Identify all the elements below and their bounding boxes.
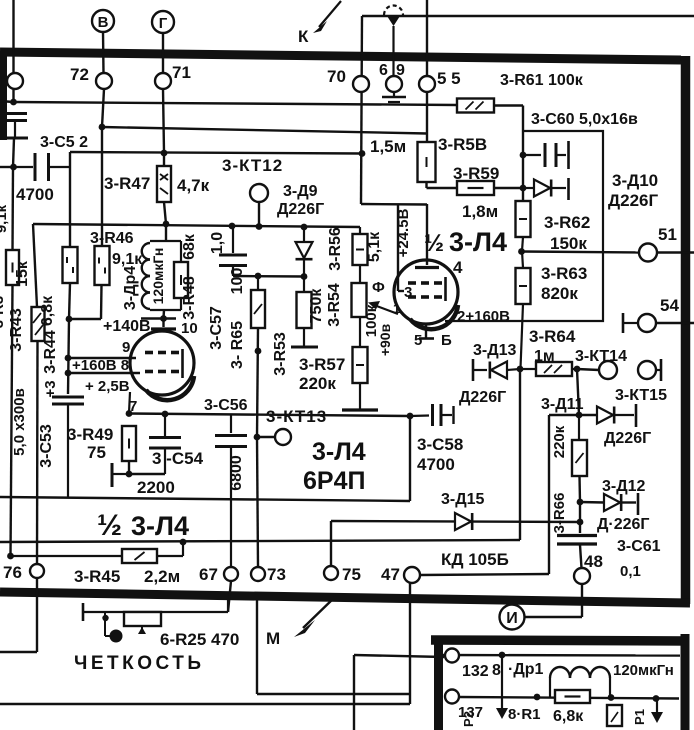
label 150K	[550, 234, 587, 253]
node junction x257/y437	[254, 434, 261, 441]
wire 47 right	[420, 574, 549, 575]
label 820K	[541, 284, 578, 303]
label pin 5	[414, 332, 422, 349]
label 3-C53	[38, 424, 55, 468]
label KD105B	[441, 550, 509, 569]
label 6R4P big	[303, 467, 365, 495]
resistor R48 68k	[174, 241, 188, 310]
label 9,1K edge	[0, 204, 10, 233]
wire R61 right lead	[494, 104, 523, 106]
wire grid pin 8	[68, 372, 140, 374]
label 0,1	[620, 563, 641, 580]
label 8-R1	[508, 706, 541, 723]
label 67	[199, 565, 218, 584]
label 132	[462, 663, 489, 680]
svg-text:Д226Г: Д226Г	[608, 191, 658, 210]
resistor R45 2.2M	[11, 542, 184, 563]
node junction x166/y224	[163, 221, 170, 228]
svg-text:120мкГн: 120мкГн	[150, 248, 166, 305]
svg-text:½: ½	[97, 509, 122, 542]
capacitor C52 3-C52	[3, 114, 28, 139]
wire x549 up to D11	[548, 415, 550, 574]
svg-text:3-С53: 3-С53	[38, 424, 55, 468]
svg-text:3-R3: 3-R3	[0, 296, 7, 329]
svg-text:+160В 8: +160В 8	[72, 357, 129, 374]
label 47	[381, 565, 400, 584]
svg-text:220к: 220к	[551, 425, 568, 458]
terminal 76	[30, 564, 44, 578]
wire grid pin 9	[68, 357, 136, 359]
capacitor C54 2200	[149, 414, 181, 474]
label 3-KT13	[266, 407, 327, 426]
wire left edge stub y101	[0, 101, 14, 102]
wire pin3 stub	[398, 290, 404, 292]
wire R47 top lead	[163, 153, 165, 166]
svg-text:75: 75	[342, 565, 361, 584]
label 2,2M	[144, 567, 180, 586]
terminal 132	[445, 649, 459, 663]
wire loop box around R62/R63	[445, 131, 603, 321]
label P2	[461, 711, 476, 727]
label pin 10	[181, 320, 198, 337]
svg-text:3-R49: 3-R49	[67, 425, 113, 444]
node junction x13/y102	[10, 99, 17, 106]
svg-text:6800: 6800	[228, 455, 245, 491]
node junction x523/y155	[520, 152, 527, 159]
svg-text:3-КТ15: 3-КТ15	[615, 387, 667, 404]
terminal 54	[638, 314, 656, 332]
label 48	[584, 552, 603, 571]
svg-text:+140В: +140В	[103, 318, 151, 335]
wire x13 down from C52	[13, 138, 14, 167]
terminal 55	[419, 76, 435, 92]
node junction x129/y474	[126, 471, 133, 478]
node +140V junction	[160, 315, 167, 322]
wire y655 to box	[354, 655, 444, 657]
capacitor C58 4700	[410, 404, 454, 426]
label 3-D15	[441, 491, 485, 508]
svg-text:6-R25 470: 6-R25 470	[160, 630, 239, 649]
inductor Dr4 120uH	[142, 243, 150, 309]
svg-text:3- R65: 3- R65	[229, 321, 246, 369]
label 75	[342, 565, 361, 584]
node junction x362/y153	[359, 150, 366, 157]
wire 76 below border	[36, 578, 38, 652]
node junction x10/y556	[7, 553, 14, 560]
wire y541 bus	[0, 540, 520, 542]
tube U2 grid dashes	[408, 277, 446, 301]
svg-text:51: 51	[658, 225, 677, 244]
wire to terminal 51	[522, 252, 640, 253]
tube U2 top cap pin 4	[415, 204, 439, 268]
node junction x410/y416	[407, 413, 414, 420]
wire x580 to y522	[579, 502, 581, 522]
resistor R56 5.1k	[353, 227, 368, 265]
svg-text:КД 105Б: КД 105Б	[441, 550, 509, 569]
svg-text:3-R5В: 3-R5В	[438, 135, 487, 154]
wire y225 bus	[33, 224, 360, 227]
wire y704 bottom bus	[0, 703, 410, 705]
svg-text:½: ½	[424, 230, 444, 257]
capacitor C52a 4700 coupling	[14, 153, 70, 181]
node junction x68/y373	[65, 370, 72, 377]
label 71	[172, 63, 191, 82]
svg-text:1,8м: 1,8м	[462, 202, 498, 221]
terminal 54 pin bar	[623, 313, 638, 333]
svg-text:3-R43: 3-R43	[8, 308, 25, 352]
node junction x577/y369	[574, 366, 581, 373]
svg-text:3-КТ12: 3-КТ12	[222, 156, 283, 175]
label 3-R54	[326, 283, 343, 327]
label +160V 8	[72, 357, 129, 374]
arrow to K	[313, 1, 341, 33]
svg-text:Ф: Ф	[372, 279, 385, 296]
wire x70 below resistor	[69, 283, 70, 319]
node junction pin7	[126, 410, 133, 417]
ground under 69	[382, 92, 406, 102]
label half symbol left	[97, 509, 122, 542]
resistor R63 820k	[516, 251, 531, 368]
resistor R43 15k on x13	[6, 250, 19, 285]
wire 55 from top	[426, 0, 428, 76]
capacitor C57 1.0	[219, 227, 247, 276]
svg-text:9: 9	[122, 339, 130, 356]
terminal 47	[404, 567, 420, 583]
label 1,8M	[462, 202, 498, 221]
label 3-C56	[204, 397, 248, 414]
svg-text:2,2м: 2,2м	[144, 567, 180, 586]
label pin 1	[393, 301, 400, 316]
diode D15 KD105B	[455, 513, 472, 530]
node junction x580/y522	[577, 519, 584, 526]
label 75	[87, 443, 106, 462]
label 3-R47	[104, 174, 150, 193]
resistor R46a	[63, 247, 78, 283]
capacitor C53 electrolytic	[52, 397, 84, 498]
label 3-R64	[529, 327, 576, 346]
svg-text:70: 70	[327, 67, 346, 86]
wire x37 down to terminal 76	[36, 341, 39, 565]
label 69 digit 9	[396, 62, 405, 79]
resistor R49 75	[122, 426, 136, 461]
node junction x183/y542	[180, 539, 187, 546]
wire y655 bottom-box bus	[443, 654, 680, 657]
terminal left edge	[7, 73, 23, 89]
label 6,8K	[39, 295, 56, 326]
capacitor C60 5.0x16V	[523, 141, 569, 169]
svg-text:6Р4П: 6Р4П	[303, 467, 365, 495]
wire y319 to R46 bottom	[69, 318, 101, 320]
svg-text:4: 4	[453, 258, 463, 277]
label 3-L4 right	[449, 227, 507, 257]
label 2+160V	[457, 308, 510, 325]
label 750K	[308, 288, 325, 324]
wire x520 down	[519, 369, 521, 540]
svg-text:М: М	[266, 629, 280, 648]
arrow down P2	[496, 655, 508, 719]
potentiometer R54 wiper arrow	[368, 301, 398, 314]
wire choke top bar	[150, 240, 181, 242]
svg-text:3-Д15: 3-Д15	[441, 491, 485, 508]
resistor R59 1.8M	[457, 181, 494, 195]
label 1,5M	[370, 137, 406, 156]
label 3-R44	[42, 330, 59, 374]
node junction x520/y369	[517, 366, 524, 373]
svg-text:+3: +3	[42, 380, 59, 397]
svg-text:1,0: 1,0	[209, 232, 226, 254]
resistor R64 1M	[520, 362, 577, 376]
wire R44 top lead	[33, 224, 37, 307]
resistor R53 750k	[291, 277, 318, 348]
svg-text:5 5: 5 5	[437, 69, 461, 88]
svg-text:132: 132	[462, 663, 489, 680]
label 3-D11	[541, 396, 584, 413]
tube U1 grid dashes	[145, 349, 183, 378]
wire x523 down	[522, 106, 524, 202]
label 4700	[16, 185, 54, 204]
wire left vertical x13 top	[12, 0, 14, 102]
svg-text:3-R56: 3-R56	[327, 227, 344, 271]
diode D9 D226G	[296, 227, 313, 277]
svg-text:67: 67	[199, 565, 218, 584]
svg-text:6,8к: 6,8к	[39, 295, 56, 326]
wire choke bottom bar	[150, 309, 181, 311]
svg-text:В: В	[98, 14, 109, 31]
label 72	[70, 65, 89, 84]
terminal 48	[574, 568, 590, 584]
ground chassis R49	[112, 463, 129, 487]
tube U1 cathode pin 7 lead	[129, 392, 130, 413]
label CHETKOST	[74, 653, 205, 674]
node junction x13/y167	[10, 164, 17, 171]
node junction x259/y226	[256, 223, 263, 230]
svg-text:15к: 15к	[14, 260, 31, 287]
label F	[372, 279, 385, 296]
svg-text:3-С5 2: 3-С5 2	[40, 134, 88, 151]
capacitor C56 6800	[215, 415, 247, 567]
label 3-R43	[8, 308, 25, 352]
svg-text:3-R64: 3-R64	[529, 327, 576, 346]
node junction x502/y655	[499, 652, 506, 659]
frame: bottom box right border	[681, 634, 690, 730]
resistor R46 9.1k	[95, 246, 110, 285]
resistor R58 1.5M	[418, 142, 436, 188]
svg-text:3-Д9: 3-Д9	[283, 183, 318, 200]
label pin 7	[129, 398, 137, 415]
capacitor C61 0.1	[557, 522, 597, 568]
wire 51 to edge	[657, 251, 694, 253]
wire y497 bus	[0, 497, 410, 501]
label B cathode	[441, 332, 452, 349]
frame: thick top border of main box	[0, 52, 681, 60]
label 3-R57	[299, 355, 345, 374]
svg-text:3-R59: 3-R59	[453, 164, 499, 183]
wire 48 down	[581, 584, 583, 617]
label 54	[660, 296, 679, 315]
svg-text:2200: 2200	[137, 478, 175, 497]
wire x68 from y319 down	[68, 319, 69, 394]
label 100K	[363, 304, 380, 337]
label 3-R3 edge	[0, 296, 7, 329]
node junction x68/y358	[65, 355, 72, 362]
resistor R1 6.8k	[555, 690, 590, 703]
svg-text:+ 2,5В: + 2,5В	[85, 378, 130, 395]
svg-text:1м: 1м	[534, 348, 555, 365]
wire 71 down	[163, 89, 164, 152]
label 3-R46	[90, 230, 134, 247]
wire y697 bus	[458, 697, 679, 699]
wire x257 to terminal 73	[257, 437, 258, 567]
wire x331 to 75	[330, 521, 332, 566]
svg-text:3-R61 100к: 3-R61 100к	[500, 72, 584, 89]
wire y522	[331, 521, 580, 522]
label 3-R65	[229, 321, 246, 369]
arrow to M	[294, 596, 336, 637]
wire x13 below R43	[11, 285, 13, 556]
label 3-R63	[541, 264, 587, 283]
label 3-R45	[74, 567, 120, 586]
label K	[298, 27, 309, 46]
node junction x232/y226	[229, 223, 236, 230]
terminal circle B top	[92, 10, 114, 32]
node junction x579/y415	[576, 412, 583, 419]
svg-text:220к: 220к	[299, 374, 336, 393]
diode D12 D226G	[580, 493, 638, 515]
svg-text:8: 8	[492, 662, 501, 679]
resistor R62 150k	[516, 201, 531, 251]
wire x13 down to R43	[11, 167, 14, 250]
svg-text:3 -С54: 3 -С54	[152, 449, 204, 468]
terminal KT15 circle with bar	[638, 359, 661, 381]
wire +B bus y101 to R61	[14, 102, 458, 105]
svg-text:Б: Б	[441, 332, 452, 349]
label 3-R56	[327, 227, 344, 271]
svg-text:3-КТ14: 3-КТ14	[575, 348, 627, 365]
wire left edge stub y167	[0, 166, 14, 168]
terminal KT14 circle	[599, 361, 617, 379]
terminal 71	[155, 73, 171, 89]
wire x102 down to R46	[101, 127, 103, 246]
svg-text:3-R63: 3-R63	[541, 264, 587, 283]
label 3-D13	[473, 342, 517, 359]
terminal KT12 circle	[250, 184, 268, 202]
arrow down P1	[651, 698, 663, 723]
svg-text:Д226Г: Д226Г	[277, 201, 324, 218]
wire R46 bottom lead	[100, 285, 103, 319]
svg-text:Д·226Г: Д·226Г	[597, 516, 650, 533]
label pin 4	[453, 258, 463, 277]
node junction x258/y351	[255, 348, 262, 355]
wire G to border	[162, 33, 164, 73]
tube U1 top cap pin 10	[151, 318, 176, 329]
wire y318 stub	[141, 317, 176, 319]
resistor small below	[607, 705, 622, 726]
label 3-R62	[544, 213, 590, 232]
frame: bottom box left border	[434, 636, 443, 730]
wire y153 from x70 corner to x362	[70, 152, 362, 154]
svg-text:3-Д13: 3-Д13	[473, 342, 517, 359]
label D226G D13	[459, 389, 506, 406]
wire 54 to edge	[656, 322, 694, 324]
wire 73 below border	[256, 599, 258, 694]
svg-text:И: И	[506, 610, 518, 627]
wire y276	[233, 275, 304, 278]
node junction x611/y697	[608, 694, 615, 701]
wire to KT14	[577, 369, 599, 370]
label +3	[42, 380, 59, 397]
label 3-R58	[438, 135, 487, 154]
node junction x165/y414	[162, 411, 169, 418]
label 3-C54	[152, 449, 204, 468]
potentiometer R54 100k	[352, 265, 367, 317]
svg-text:3-Л4: 3-Л4	[449, 227, 507, 257]
wire 67 below	[228, 581, 231, 612]
label D226G D9	[277, 201, 324, 218]
svg-text:75: 75	[87, 443, 106, 462]
label 1,0	[209, 232, 226, 254]
label 68K	[181, 233, 198, 260]
label 73	[267, 565, 286, 584]
wire 48 to I	[525, 616, 582, 618]
svg-text:150к: 150к	[550, 234, 587, 253]
label 3-R49	[67, 425, 113, 444]
svg-text:6,8к: 6,8к	[553, 708, 584, 725]
tube U2 cathode pin 5 lead	[419, 324, 434, 339]
svg-text:3-КТ13: 3-КТ13	[266, 407, 327, 426]
wire node to choke pair	[165, 224, 167, 241]
label D226G D11	[604, 430, 651, 447]
label 3-R66	[551, 493, 568, 534]
wire KT12 down	[258, 202, 260, 227]
svg-text:3-С60 5,0х16в: 3-С60 5,0х16в	[531, 111, 638, 128]
connector antenna symbol	[384, 6, 403, 78]
svg-text:120мкГн: 120мкГн	[613, 662, 674, 679]
node junction x258/y276	[255, 273, 262, 280]
label 137	[458, 704, 483, 721]
svg-text:3-Д12: 3-Д12	[602, 478, 646, 495]
label 76	[3, 563, 22, 582]
node junction x522/y251	[518, 248, 525, 255]
svg-text:3-С56: 3-С56	[204, 397, 248, 414]
svg-text:3-R46: 3-R46	[90, 230, 134, 247]
svg-text:54: 54	[660, 296, 679, 315]
label 3-R48	[181, 276, 198, 320]
svg-text:1,5м: 1,5м	[370, 137, 406, 156]
wire y414 bus C54 C56 C58	[129, 414, 410, 417]
label 3-D9	[283, 183, 318, 200]
svg-text:47: 47	[381, 565, 400, 584]
label 2200	[137, 478, 175, 497]
wire R49 bottom	[128, 461, 130, 474]
label 6-R25 470	[160, 630, 239, 649]
label pin 3	[404, 284, 412, 301]
svg-text:73: 73	[267, 565, 286, 584]
svg-text:3-С61: 3-С61	[617, 538, 661, 555]
wire 47 down	[409, 583, 411, 704]
inductor Dr1 120uH	[550, 667, 610, 697]
wire choke to anode node	[162, 310, 165, 318]
svg-text:3-R53: 3-R53	[272, 332, 289, 376]
label 4,7K	[177, 176, 210, 195]
svg-text:3-Д11: 3-Д11	[541, 396, 584, 413]
label pin 9	[122, 339, 130, 356]
terminal circle G top	[152, 11, 174, 33]
label 6,8K R1	[553, 708, 584, 725]
label 3-R53	[272, 332, 289, 376]
tube U1 half 3-L4 envelope	[130, 331, 194, 400]
label 70	[327, 67, 346, 86]
wire y652 left	[0, 651, 37, 653]
